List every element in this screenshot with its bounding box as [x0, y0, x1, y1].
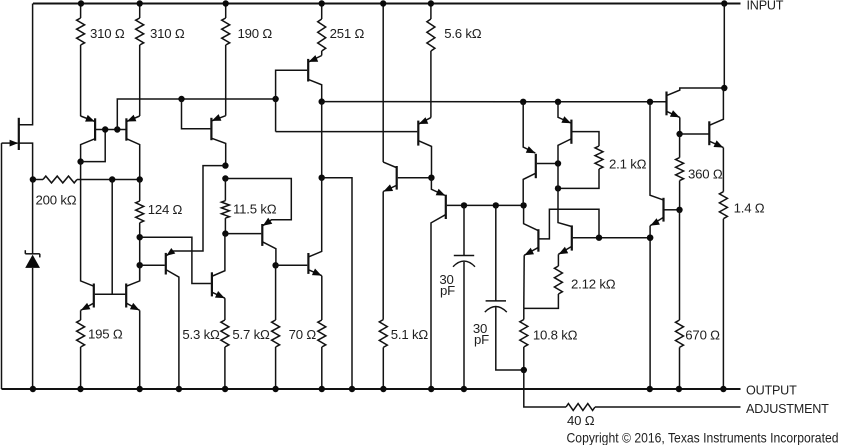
svg-text:124 Ω: 124 Ω — [148, 202, 183, 217]
node: Q17d emitter/output rail — [137, 386, 143, 392]
resistor R9 (2.12 kohm) — [524, 254, 563, 308]
transistor Q19 (PNP) — [262, 218, 276, 266]
label 10.8 kOhm — [533, 327, 578, 342]
node: Y-right / Qc emitter — [520, 99, 526, 105]
label 200 kOhm — [36, 192, 77, 207]
transistor Q1 (PNP mirror left) — [81, 115, 96, 162]
wire: adjust drop and 40 ohm lead-in — [524, 370, 566, 407]
node: rail/310a — [78, 0, 84, 6]
node: 200k right end — [137, 176, 143, 182]
node: base tie a — [102, 126, 108, 132]
resistor R15 (124 ohm) — [136, 180, 144, 281]
label 5.3 kOhm — [182, 327, 220, 342]
svg-text:310 Ω: 310 Ω — [150, 26, 185, 41]
node: base tie b — [114, 126, 120, 132]
resistor R1 (310 ohm) left — [77, 4, 85, 117]
node: x139/237 — [137, 234, 143, 240]
node: 5.1k/output rail — [380, 386, 386, 392]
wire: Q4 base leg — [276, 70, 308, 131]
label 2.12 kOhm — [571, 276, 616, 291]
label 5.6 kOhm — [444, 26, 482, 41]
node: 200k left junction — [30, 176, 36, 182]
transistor Q3 (PNP) — [211, 114, 225, 166]
svg-text:2.12 kΩ: 2.12 kΩ — [571, 276, 616, 291]
node: 670/output rail — [676, 386, 682, 392]
label 670 Ohm — [685, 328, 720, 343]
resistor R4 (251 ohm) — [318, 4, 326, 56]
node: Q3 coll a — [222, 162, 228, 168]
transistor Q16 (NPN diff left) — [81, 162, 94, 311]
node: Q11/Q12 base tie — [596, 235, 602, 241]
transistor Q5 (NPN) — [383, 162, 397, 320]
label 124 Ohm — [148, 202, 183, 217]
svg-text:190 Ω: 190 Ω — [238, 26, 273, 41]
resistor R16 (195 ohm) — [77, 310, 85, 389]
resistor R8 (2.1 kohm) — [558, 146, 603, 188]
wire: zener column upper — [32, 180, 34, 254]
transistor Q8 (PNP) — [431, 189, 446, 389]
transistor Q15 (NPN output) — [709, 88, 724, 192]
label C2 pF — [474, 332, 489, 347]
svg-text:5.7 kΩ: 5.7 kΩ — [232, 327, 270, 342]
wire: rail drop x383 — [382, 4, 384, 163]
wire: Y-right bus — [322, 101, 666, 103]
node: Y-left right end — [272, 96, 278, 102]
label C1 pF — [440, 283, 455, 298]
svg-text:40 Ω: 40 Ω — [567, 413, 595, 428]
wire: Q18 base route — [140, 237, 211, 283]
node: Y-right start — [319, 98, 325, 104]
svg-text:ADJUSTMENT: ADJUSTMENT — [746, 402, 829, 416]
wire: 251 col down — [321, 102, 323, 178]
node: Q19 coll / 5.7k top — [272, 262, 278, 268]
node: 2.1k join — [555, 185, 561, 191]
node: 200k/diff base feed — [109, 176, 115, 182]
node: Q13 emitter/base-bus — [647, 235, 653, 241]
label 195 Ohm — [88, 327, 123, 342]
svg-text:pF: pF — [440, 283, 455, 298]
label 11.5 kOhm — [233, 201, 277, 216]
wire: Q17 base — [140, 264, 165, 266]
svg-text:200 kΩ: 200 kΩ — [36, 192, 77, 207]
resistor R10 (10.8 kohm) — [520, 308, 528, 370]
wire: Q3 base leg — [182, 99, 211, 129]
node: Y-right / Q10 emitter — [555, 99, 561, 105]
svg-text:5.6 kΩ: 5.6 kΩ — [444, 26, 482, 41]
wire: Q19 emitter over-route — [225, 179, 291, 226]
wire: Q8 base line (compensation bus) — [447, 204, 524, 206]
svg-text:11.5 kΩ: 11.5 kΩ — [233, 201, 277, 216]
node: Q13 emitter/output rail — [647, 386, 653, 392]
node: rail/310b — [137, 0, 143, 6]
transistor Q17d (NPN diff right) — [126, 265, 140, 389]
node: 70/output rail — [319, 386, 325, 392]
resistor R_200k (200 kΩ) — [33, 176, 140, 183]
wire: Q5 base — [398, 177, 432, 179]
transistor Q7 (PNP at 5.6k) — [418, 117, 431, 178]
wire: Q11 base line — [573, 237, 650, 239]
label 190 Ohm — [238, 26, 273, 41]
wire: Q19 base — [225, 233, 261, 235]
node: rail/5.6k — [428, 0, 434, 6]
node: 360/670 junction — [676, 207, 682, 213]
transistor Q10 (PNP upper right) — [558, 102, 571, 164]
resistor R6 (11.5 kohm) — [221, 179, 229, 234]
wire: Q11 collector riser — [558, 164, 571, 227]
wire: diff pair base feed — [111, 180, 113, 295]
svg-text:OUTPUT: OUTPUT — [746, 384, 797, 398]
wire: INPUT rail — [33, 3, 741, 5]
node: Q1 collector tie — [77, 158, 83, 164]
label OUTPUT — [746, 384, 797, 398]
label 310 Ohm b — [150, 26, 185, 41]
wire: Q13 collector drop — [650, 102, 663, 200]
transistor Q18 (NPN) — [211, 234, 225, 320]
svg-text:251 Ω: 251 Ω — [330, 26, 365, 41]
resistor R7 (5.1 kohm) — [379, 320, 387, 389]
node: 5.7k/output rail — [272, 386, 278, 392]
zener diode D1 — [25, 250, 40, 268]
node: Q3 coll b — [222, 175, 228, 181]
wire: OUTPUT rail — [2, 388, 741, 390]
transistor Q11 (NPN) — [558, 225, 571, 254]
wire: INPUT drop — [723, 4, 725, 89]
resistor R14 (1.4 ohm) — [719, 192, 727, 389]
label 2.1 kOhm — [609, 156, 647, 171]
transistor J1 (JFET input current source) — [2, 4, 33, 180]
node: cap2 top — [493, 202, 499, 208]
label 251 Ohm — [330, 26, 365, 41]
node: 1.4/output rail — [720, 386, 726, 392]
resistor R11 (40 ohm) — [566, 404, 741, 411]
node: 195/output rail — [77, 386, 83, 392]
node: right drop/output rail — [349, 386, 355, 392]
node: cap1 top — [461, 202, 467, 208]
svg-text:5.1 kΩ: 5.1 kΩ — [391, 327, 429, 342]
label 40 Ohm — [567, 413, 595, 428]
wire: Q12 base over-route — [539, 209, 599, 239]
node: zener/output rail — [30, 386, 36, 392]
svg-text:pF: pF — [474, 332, 489, 347]
node: 11.5k bottom — [222, 230, 228, 236]
wire: Q9 base — [537, 163, 558, 165]
wire: Q20 base — [276, 264, 308, 266]
transistor Q9 (PNP upper) — [523, 102, 536, 206]
node: 10.8k bottom — [521, 367, 527, 373]
node: N1 — [428, 175, 434, 181]
node: Q9 base/Q11 coll — [555, 160, 561, 166]
node: rail/190 — [223, 0, 229, 6]
wire: Q15 base — [680, 133, 709, 135]
label ADJUSTMENT — [746, 402, 829, 416]
svg-text:310 Ω: 310 Ω — [90, 26, 125, 41]
wire: J1 gate to output rail — [1, 143, 3, 389]
capacitor C1 (30 pF) — [453, 205, 475, 389]
transistor Q13 (NPN) — [650, 198, 663, 389]
wire: Q13 base — [665, 209, 680, 211]
node: C1/output rail — [461, 386, 467, 392]
transistor Q17 (PNP feedback) — [166, 248, 179, 389]
wire: branch to right drop — [322, 178, 352, 389]
node: comp bus right end — [520, 202, 526, 208]
label 5.1 kOhm — [391, 327, 429, 342]
node: INPUT drop top — [721, 0, 727, 6]
label C1 30 — [439, 272, 453, 287]
node: rail/Q5 — [380, 0, 386, 6]
resistor R2 (310 ohm) second — [136, 4, 144, 117]
node: Y-right / Q13 collector — [647, 99, 653, 105]
resistor R18 (5.7 kohm) — [272, 265, 280, 389]
node: 251 col mid — [319, 175, 325, 181]
resistor R12 (360 ohm) — [676, 134, 684, 210]
node: base bus right end — [647, 235, 653, 241]
node: Q8 coll/output rail — [428, 386, 434, 392]
wire: node to Q8 emitter riser — [173, 166, 225, 251]
transistor Q14 (NPN darlington top) — [666, 88, 724, 134]
wire: zener to output rail — [32, 268, 34, 389]
node: Q14 emitter node — [676, 131, 682, 137]
wire: long base line to Q7 — [276, 131, 418, 133]
label 70 Ohm — [289, 327, 317, 342]
svg-text:360 Ω: 360 Ω — [688, 166, 723, 181]
transistor Q20 (NPN) — [308, 178, 322, 320]
wire: Q16/Q17 base line — [95, 293, 126, 295]
wire: Q1/Q2 base line — [96, 129, 126, 131]
capacitor C2 (30 pF) — [485, 205, 524, 370]
wire: N1 to Q8 emitter — [431, 178, 444, 196]
label 360 Ohm — [688, 166, 723, 181]
svg-text:2.1 kΩ: 2.1 kΩ — [609, 156, 647, 171]
label 310 Ohm a — [90, 26, 125, 41]
node: Y-left / Q3 base — [178, 96, 184, 102]
transistor Q12 (NPN, drives adjust) — [524, 205, 539, 308]
label copyright — [567, 430, 839, 445]
wire: Q1 collector to base (diode tie) — [81, 130, 106, 162]
svg-text:70 Ω: 70 Ω — [289, 327, 317, 342]
label C2 30 — [473, 321, 487, 336]
resistor R17 (5.3 kohm) — [221, 320, 229, 389]
node: 5.3k/output rail — [222, 386, 228, 392]
svg-text:Copyright © 2016, Texas Instru: Copyright © 2016, Texas Instruments Inco… — [567, 430, 839, 445]
svg-text:5.3 kΩ: 5.3 kΩ — [182, 327, 220, 342]
svg-text:10.8 kΩ: 10.8 kΩ — [533, 327, 578, 342]
node: Q17 coll/output rail — [176, 386, 182, 392]
svg-text:1.4 Ω: 1.4 Ω — [734, 200, 765, 215]
label INPUT — [747, 0, 784, 13]
wire: Q10 base to 2.1k — [572, 132, 599, 146]
resistor R19 (70 ohm) — [318, 320, 326, 389]
node: rail/251 — [319, 0, 325, 6]
svg-text:195 Ω: 195 Ω — [88, 327, 123, 342]
resistor R5 (5.6 kohm) — [427, 4, 435, 118]
svg-text:670 Ω: 670 Ω — [685, 328, 720, 343]
transistor Q2 (PNP mirror right) — [126, 115, 139, 180]
resistor R3 (190 ohm) — [222, 4, 230, 116]
label 5.7 kOhm — [232, 327, 270, 342]
transistor Q4 (PNP under 251 ohm) — [308, 55, 322, 102]
node: x139/265 — [137, 262, 143, 268]
wire: Y-left bus — [117, 99, 275, 130]
resistor R13 (670 ohm) — [676, 210, 684, 389]
svg-text:INPUT: INPUT — [747, 0, 784, 13]
label 1.4 Ohm — [734, 200, 765, 215]
node: darlington collector tie — [721, 85, 727, 91]
